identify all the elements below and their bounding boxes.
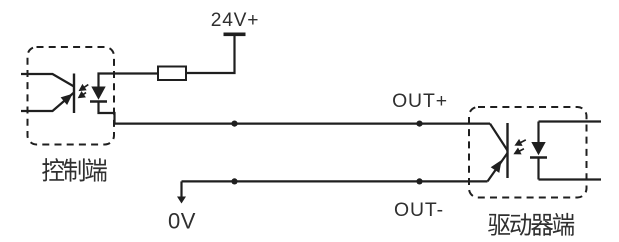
wire: driver internal bottom rail bbox=[539, 178, 602, 180]
wire: driver internal top rail bbox=[539, 120, 602, 122]
wire: LED cathode down and out of box to OUT+ line bbox=[99, 102, 115, 124]
svg-text:OUT+: OUT+ bbox=[392, 90, 448, 112]
wire: 0V / OUT- line bbox=[182, 180, 488, 182]
optocoupler U2 phototransistor base bar bbox=[506, 123, 508, 178]
label: control side (Chinese) bbox=[42, 158, 107, 182]
0V reference arrow bbox=[180, 181, 182, 197]
U1 light coupling arrows bbox=[79, 85, 88, 98]
optocoupler U1 phototransistor base bar bbox=[73, 74, 75, 114]
wire: 24V+ rail down and left to resistor bbox=[186, 36, 235, 73]
junction dot on OUT- (right) bbox=[416, 178, 422, 184]
junction dot on OUT+ bbox=[231, 121, 237, 127]
U1 LED (input diode) bbox=[91, 87, 105, 100]
U2 light coupling arrows bbox=[515, 140, 526, 154]
wire: resistor to optocoupler LED anode bbox=[99, 74, 159, 87]
control-side dashed enclosure bbox=[28, 47, 115, 145]
wire: LED cathode to bottom rail bbox=[537, 158, 539, 180]
svg-text:24V+: 24V+ bbox=[211, 10, 260, 31]
U2 emitter lead wire with arrow bbox=[488, 153, 508, 181]
U1 collector lead wire bbox=[21, 74, 74, 87]
24V+ supply rail bar bbox=[224, 33, 246, 37]
junction dot on OUT- bbox=[231, 178, 237, 184]
wire: LED anode from top rail bbox=[537, 122, 539, 143]
driver-side dashed enclosure bbox=[469, 107, 587, 198]
junction dot on OUT+ (right) bbox=[416, 121, 422, 127]
label: driver side (Chinese) bbox=[488, 213, 574, 236]
U1 emitter lead wire with arrow bbox=[21, 93, 74, 112]
svg-text:0V: 0V bbox=[168, 209, 196, 234]
wire: OUT+ line bbox=[115, 122, 491, 124]
U2 LED (driver input diode) bbox=[531, 142, 545, 155]
U2 collector lead wire bbox=[490, 124, 508, 151]
resistor R (current limiting) bbox=[158, 67, 186, 81]
svg-text:OUT-: OUT- bbox=[394, 199, 444, 221]
